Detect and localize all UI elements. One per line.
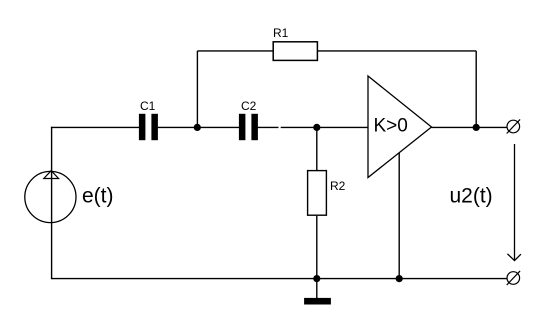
svg-text:C1: C1 bbox=[140, 99, 156, 113]
svg-text:e(t): e(t) bbox=[82, 185, 114, 208]
wire: C2 to break bbox=[258, 126, 279, 128]
ground bbox=[304, 298, 331, 305]
node D (R2/ground junction) bbox=[313, 275, 320, 282]
node A (C1/C2/feedback junction) bbox=[194, 124, 201, 131]
wire: op-amp output to top output terminal bbox=[432, 126, 507, 128]
wire: C1 to C2 (through node A) bbox=[158, 126, 239, 128]
wire: node B down to R2 top bbox=[316, 127, 318, 170]
svg-text:R2: R2 bbox=[330, 179, 346, 193]
u2(t) arrow bbox=[450, 144, 521, 261]
wire: feedback vertical down to output node bbox=[475, 51, 477, 128]
resistor R1 bbox=[273, 26, 317, 60]
resistor R2 bbox=[308, 171, 346, 216]
node E (amp pin/bottom rail junction) bbox=[396, 275, 403, 282]
node C (output/feedback junction) bbox=[473, 124, 480, 131]
wire: break to op-amp input (through node B) bbox=[281, 126, 368, 128]
wire: feedback vertical up from node A bbox=[196, 51, 198, 128]
wire: bottom horizontal rail bbox=[51, 278, 507, 280]
svg-text:R1: R1 bbox=[273, 26, 289, 40]
wire: ground stub below bottom rail bbox=[316, 279, 318, 299]
svg-text:C2: C2 bbox=[241, 99, 257, 113]
wire: left vertical from main wire through source to bottom rail bbox=[51, 127, 53, 279]
wire: feedback top horizontal to R1 bbox=[197, 50, 272, 52]
wire: R1 to right corner bbox=[318, 50, 477, 52]
wire: R2 bottom to bottom rail bbox=[316, 216, 318, 279]
terminal: top output bbox=[507, 119, 520, 133]
svg-text:K>0: K>0 bbox=[374, 116, 408, 137]
wire: main horizontal, left corner to C1 bbox=[51, 126, 139, 128]
capacitor C2 bbox=[239, 99, 258, 140]
wire: op-amp bottom pin down to bottom rail bbox=[398, 153, 400, 279]
terminal: bottom output bbox=[507, 271, 520, 285]
source e(t) bbox=[25, 171, 114, 223]
capacitor C1 bbox=[139, 99, 158, 140]
svg-text:u2(t): u2(t) bbox=[450, 185, 493, 208]
op-amp U1 (amplifier K>0) bbox=[368, 76, 432, 178]
node B (C2/R2/amp input junction) bbox=[313, 124, 320, 131]
